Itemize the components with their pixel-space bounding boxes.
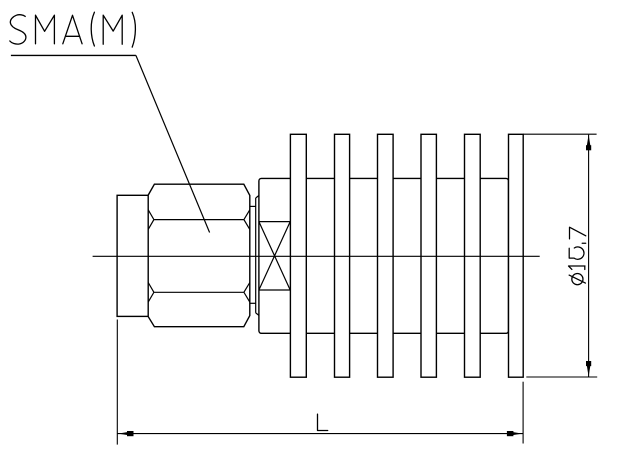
extension line bottom right bbox=[526, 376, 597, 378]
leader line bbox=[136, 55, 210, 232]
dim text L bbox=[318, 414, 328, 430]
washer ring bbox=[256, 196, 259, 316]
extension line bottom right vertical bbox=[522, 382, 524, 444]
arrow down bbox=[586, 362, 591, 377]
connector barrel bbox=[117, 195, 148, 316]
leader underline bbox=[11, 54, 136, 56]
fin 5 bbox=[465, 134, 481, 377]
extension line bottom left bbox=[116, 320, 118, 445]
neck bottom line bbox=[250, 302, 256, 304]
hex facet line upper bbox=[148, 210, 250, 230]
arrow left bbox=[118, 431, 132, 435]
dimension line L bbox=[117, 433, 523, 435]
end cap bbox=[509, 134, 524, 377]
fin 4 bbox=[421, 134, 436, 377]
arrow up bbox=[586, 135, 591, 150]
center line bbox=[93, 255, 540, 257]
label text SMA(M) bbox=[10, 12, 136, 47]
heatsink body bbox=[259, 178, 509, 333]
fin 1 bbox=[290, 134, 306, 377]
fin 3 bbox=[378, 134, 394, 377]
fin 2 bbox=[335, 134, 350, 377]
neck top line bbox=[250, 205, 256, 207]
hex nut outline bbox=[148, 184, 250, 327]
dim text dia 15.7 rotated bbox=[569, 227, 586, 285]
resistor section box with cross bbox=[259, 222, 290, 290]
hex facet line lower bbox=[148, 283, 250, 303]
extension line top right bbox=[523, 133, 596, 135]
arrow right bbox=[508, 431, 522, 435]
dimension line dia bbox=[588, 135, 590, 377]
